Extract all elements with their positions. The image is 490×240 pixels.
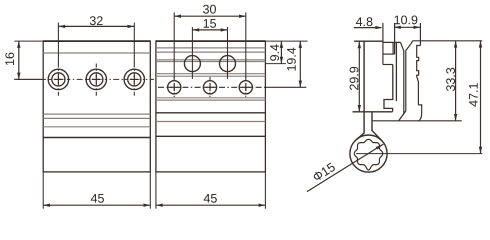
profile flange bottom edge [353, 111, 393, 113]
dimension 16 extension lines [14, 40, 43, 42]
left view dimension 45 extension lines [42, 172, 44, 209]
plate top edge [383, 41, 401, 43]
slot bottom chamfer [399, 111, 406, 121]
dimension 9.4 extension lines [265, 40, 307, 42]
dimension 4.8 [354, 27, 382, 29]
dimension 47.1 [480, 41, 482, 154]
left view dimension 45 [43, 204, 150, 206]
plate foot [418, 105, 421, 121]
dimension 15 extension lines [191, 27, 193, 79]
barrel wavy inner bore [354, 139, 383, 170]
middle view lower holes centerline [158, 86, 265, 88]
middle view lower hole 1 [168, 81, 181, 94]
left view holes centerline horizontal [14, 78, 40, 80]
middle view upper hole B [220, 56, 236, 72]
dimension 29.9 [358, 42, 360, 112]
middle view upper hole A [184, 56, 200, 72]
left view inner edge lines [43, 52, 150, 54]
diameter 15 leader [307, 144, 383, 192]
profile flange inner step lines [382, 23, 384, 65]
left view hole 3 [124, 69, 144, 89]
profile neck right side [372, 112, 381, 140]
screw funnel [401, 42, 404, 50]
middle view lower hole 2 [203, 81, 216, 94]
dimension 33.3 [455, 41, 457, 121]
dimension 32 extension lines [57, 23, 59, 65]
left view hole 1 [48, 69, 68, 89]
plate left edge [395, 42, 397, 101]
screw slot walls [403, 51, 405, 114]
profile left flange top edge [354, 40, 383, 42]
left view body outline [43, 41, 150, 172]
dimension 15 [192, 29, 227, 31]
barrel outer circle [350, 135, 387, 172]
middle view lower hole 3 [239, 81, 252, 94]
middle view dimension 45 [156, 204, 266, 206]
middle view inner edge lines [156, 47, 266, 49]
middle view dimension 45 extension lines [155, 172, 157, 209]
plate top right edge [413, 40, 483, 42]
middle view body outline [156, 41, 266, 172]
dimension 30 extension lines [173, 12, 175, 78]
left view hole 2 [86, 69, 106, 89]
dimension 32 [58, 25, 134, 27]
dimension 47.1 extension [356, 153, 482, 155]
plate serrated edge [417, 46, 421, 105]
dimension 9.4 [280, 41, 282, 64]
profile left flange left edge [357, 42, 364, 140]
dimension 19.4 [299, 41, 301, 87]
dimension 30 [174, 15, 246, 17]
profile flange inner right edge [384, 65, 393, 112]
dimension 10.9 [394, 26, 420, 28]
dimension 16 [18, 41, 20, 79]
